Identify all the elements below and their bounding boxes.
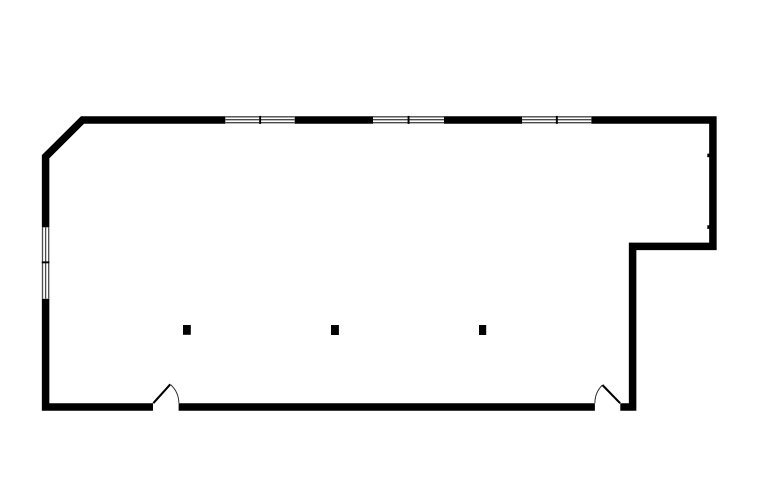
window W3 (top wall) (522, 116, 591, 124)
column P1 (183, 325, 191, 335)
window W4 (left wall) (42, 227, 50, 298)
node A: joint nub on right wall (upper) (707, 154, 709, 158)
wire: bottom wall segment between the two doors (179, 403, 595, 411)
door D2 leaf (602, 385, 620, 403)
column P2 (331, 325, 339, 335)
column P3 (479, 325, 486, 335)
door D1 leaf (153, 384, 170, 403)
window W2 (top wall) (373, 116, 444, 124)
node B: joint nub on right wall (lower) (707, 225, 709, 229)
door D1 swing arc (171, 385, 179, 404)
door D2 swing arc (595, 385, 602, 403)
wire: main wall outline (top, right, notch, left, chamfer, bottom segments) (46, 120, 713, 407)
window W1 (top wall) (225, 116, 294, 124)
